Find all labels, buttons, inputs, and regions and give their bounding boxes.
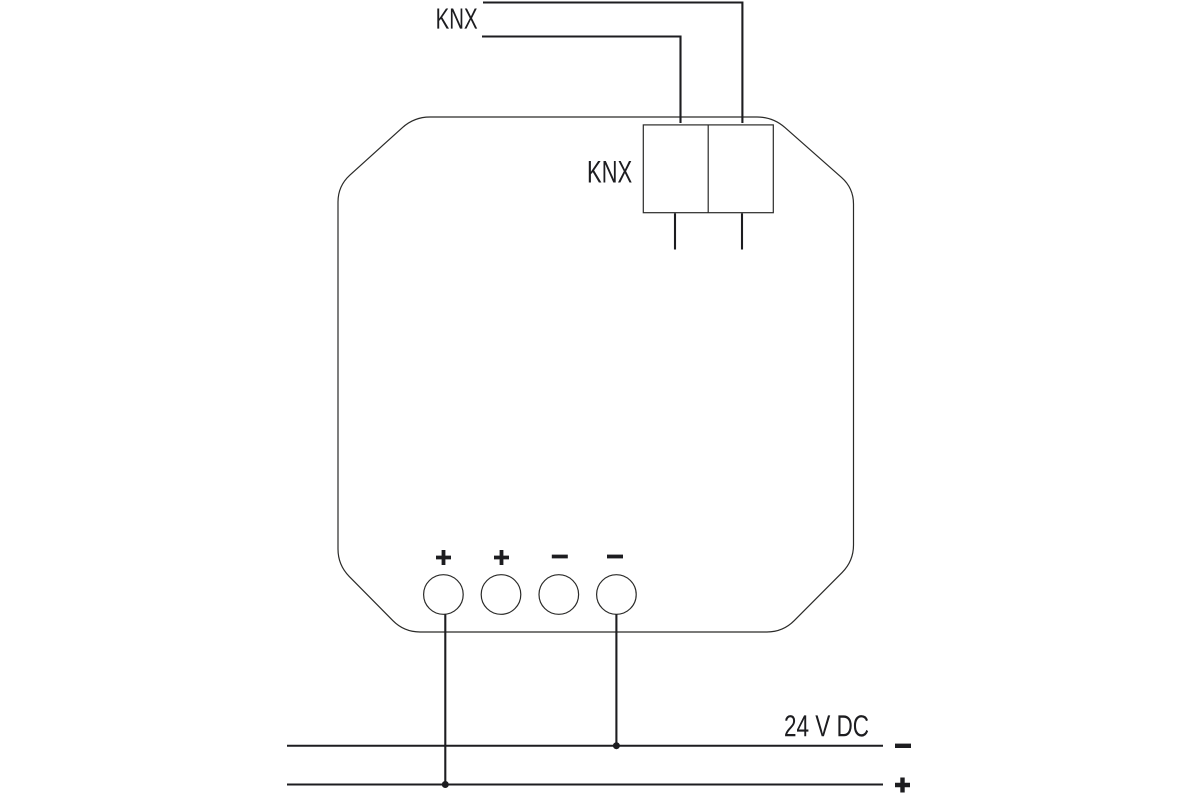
terminal circle 3 (-)	[539, 575, 579, 615]
wire stub below terminal block (right)	[741, 213, 743, 249]
label 24 V DC	[785, 715, 868, 737]
24V DC minus rail	[287, 745, 883, 747]
rail label - (minus)	[895, 744, 911, 748]
terminal label + (terminal 2)	[494, 550, 509, 565]
device body (flush-mount actuator octagon outline)	[338, 117, 854, 632]
terminal circle 2 (+)	[481, 575, 521, 615]
24V DC plus rail	[287, 784, 883, 786]
junction dot on plus rail	[442, 781, 449, 788]
wire KNX bus line 1 (upper)	[483, 3, 742, 124]
wire from terminal 4 to -24V rail	[615, 614, 617, 745]
wire from terminal 1 to +24V rail	[444, 614, 446, 784]
terminal block divider	[707, 125, 709, 213]
terminal label - (terminal 4)	[607, 555, 623, 559]
KNX terminal block	[643, 125, 773, 213]
rail label + (plus)	[895, 778, 910, 793]
terminal circle 4 (-)	[597, 575, 637, 615]
terminal label + (terminal 1)	[436, 550, 451, 565]
label KNX (incoming bus)	[437, 9, 477, 29]
wire KNX bus line 2 (lower)	[482, 37, 681, 124]
terminal label - (terminal 3)	[552, 555, 568, 559]
terminal circle 1 (+)	[424, 575, 464, 615]
wire stub below terminal block (left)	[674, 213, 676, 249]
junction dot on minus rail	[613, 742, 620, 749]
label KNX (terminal block)	[589, 161, 632, 183]
